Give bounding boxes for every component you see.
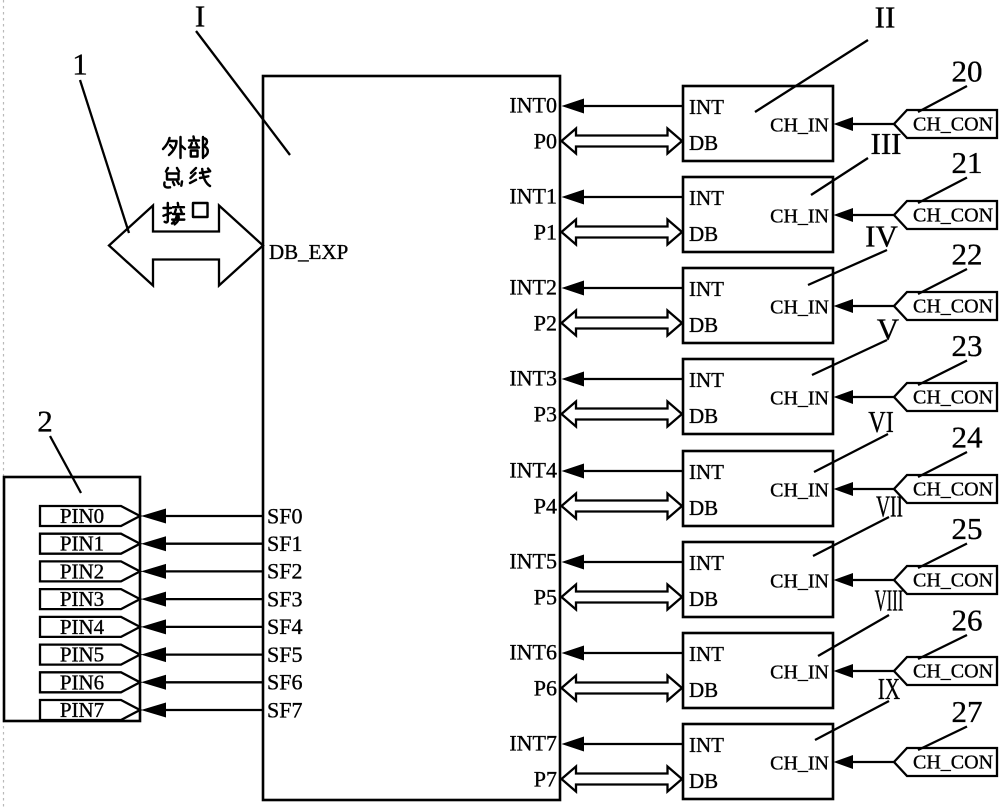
svg-text:CH_CON: CH_CON [913,114,993,136]
svg-text:SF3: SF3 [267,586,302,611]
svg-text:III: III [871,126,902,161]
svg-text:DB: DB [689,769,718,793]
svg-text:CH_IN: CH_IN [770,662,829,684]
bus P0 double arrow [562,129,683,154]
pin label SF0 [267,503,302,528]
label IV [865,218,898,253]
pin label P5 [534,584,557,609]
label 2 [37,403,53,438]
svg-text:P0: P0 [534,128,557,153]
leader line for label III [811,158,868,195]
svg-text:DB: DB [689,404,718,428]
block II : channel 0 [683,86,833,161]
wire CH_IN2 from CH_CON flag to channel block [834,299,895,313]
pin flag PIN0 [40,504,140,528]
wire SF7 from block I to PIN7 [141,703,263,718]
leader line for label I [196,31,290,155]
svg-text:INT: INT [689,277,724,301]
svg-text:INT: INT [689,95,724,119]
svg-text:CH_CON: CH_CON [913,479,993,501]
svg-text:INT4: INT4 [509,457,557,482]
block IX : channel 7 [683,724,833,799]
bus P2 double arrow [562,311,683,336]
bus P3 double arrow [562,402,683,427]
svg-text:21: 21 [952,145,983,180]
pin label DB_EXP [269,240,348,264]
label I [195,0,205,33]
pin label INT7 [509,730,557,755]
svg-text:INT2: INT2 [509,274,557,299]
leader line for label 23 [918,361,967,386]
wire INT5 from channel block to block I [562,555,684,570]
leader line for label 26 [918,635,967,659]
svg-text:SF5: SF5 [267,642,302,667]
svg-text:INT5: INT5 [509,548,557,573]
wire INT0 from channel block to block I [562,99,684,114]
pin flag PIN2 [40,559,140,583]
pin flag PIN1 [40,532,140,556]
wire CH_IN4 from CH_CON flag to channel block [834,482,895,496]
svg-text:SF6: SF6 [267,670,302,695]
svg-text:PIN5: PIN5 [60,643,104,667]
pin flag PIN5 [40,643,140,667]
wire INT6 from channel block to block I [562,646,684,661]
wire SF0 from block I to PIN0 [141,509,263,524]
pin label INT2 [509,274,557,299]
svg-text:CH_IN: CH_IN [770,480,829,502]
svg-text:INT: INT [689,733,724,757]
svg-text:INT: INT [689,460,724,484]
wire SF5 from block I to PIN5 [141,647,263,662]
svg-text:SF7: SF7 [267,697,302,722]
svg-text:INT: INT [689,642,724,666]
pin label SF1 [267,531,302,556]
wire INT7 from channel block to block I [562,737,684,752]
leader line for label 25 [918,544,967,569]
svg-text:INT0: INT0 [509,92,557,117]
leader line for label IX [815,701,889,740]
svg-text:PIN2: PIN2 [60,559,104,583]
pin flag PIN4 [40,615,140,639]
pin label P0 [534,128,557,153]
svg-text:23: 23 [952,328,983,363]
label VI [868,405,894,440]
label II [875,0,896,34]
bus P6 double arrow [562,676,683,701]
leader line for label 1 [80,80,129,233]
svg-text:P6: P6 [534,675,557,700]
svg-text:IX: IX [878,671,900,706]
pin label P6 [534,675,557,700]
svg-text:INT: INT [689,368,724,392]
svg-text:SF4: SF4 [267,614,302,639]
label 20 [952,53,983,88]
svg-text:INT6: INT6 [509,639,557,664]
pin label INT1 [509,183,557,208]
svg-text:PIN3: PIN3 [60,587,104,611]
wire SF6 from block I to PIN6 [141,675,263,690]
svg-text:20: 20 [952,53,983,88]
svg-text:CH_IN: CH_IN [770,115,829,137]
svg-text:CH_IN: CH_IN [770,753,829,775]
svg-text:DB: DB [689,587,718,611]
bus P4 double arrow [562,494,683,519]
block III : channel 1 [683,177,833,252]
svg-text:DB: DB [689,313,718,337]
pin flag PIN6 [40,670,140,694]
svg-text:26: 26 [952,602,983,637]
label 26 [952,602,983,637]
flag CH_CON (net 20) [894,110,997,138]
svg-text:INT7: INT7 [509,730,557,755]
label VII [876,489,903,524]
wire CH_IN3 from CH_CON flag to channel block [834,390,895,404]
wire CH_IN5 from CH_CON flag to channel block [834,573,895,587]
label VIII [875,584,904,618]
svg-text:II: II [875,0,896,34]
label 1 [72,46,88,81]
svg-text:DB: DB [689,496,718,520]
svg-text:P3: P3 [534,401,557,426]
pin label INT0 [509,92,557,117]
svg-text:I: I [195,0,205,33]
flag CH_CON (net 25) [894,566,997,594]
pin label INT4 [509,457,557,482]
external bus interface double arrow (component 1) [109,206,263,286]
bus P1 double arrow [562,220,683,245]
wire SF4 from block I to PIN4 [141,619,263,634]
svg-text:P7: P7 [534,766,557,791]
svg-text:SF0: SF0 [267,503,302,528]
svg-text:IV: IV [865,218,898,253]
wire INT3 from channel block to block I [562,372,684,387]
pin label SF3 [267,586,302,611]
bus P5 double arrow [562,585,683,610]
svg-text:DB: DB [689,678,718,702]
pin label P3 [534,401,557,426]
svg-text:22: 22 [952,236,983,271]
label IX [878,671,900,706]
wire CH_IN1 from CH_CON flag to channel block [834,208,895,222]
svg-text:CH_CON: CH_CON [913,296,993,318]
svg-text:INT: INT [689,186,724,210]
caption line 外部 [163,137,208,159]
pin label SF2 [267,559,302,584]
svg-text:PIN1: PIN1 [60,532,104,556]
pin label P1 [534,219,557,244]
svg-text:DB_EXP: DB_EXP [269,240,348,264]
svg-text:P5: P5 [534,584,557,609]
leader line for label 22 [918,269,967,294]
block VII : channel 5 [683,542,833,617]
svg-text:25: 25 [952,511,983,546]
svg-text:CH_CON: CH_CON [913,205,993,227]
leader line for label 21 [918,178,967,204]
svg-text:CH_CON: CH_CON [913,661,993,683]
block 2 : pin group box [4,477,140,721]
label 22 [952,236,983,271]
pin label INT6 [509,639,557,664]
pin flag PIN7 [40,698,140,722]
pin label SF5 [267,642,302,667]
leader line for label 2 [50,436,81,493]
svg-text:SF1: SF1 [267,531,302,556]
leader line for label IV [808,250,887,285]
svg-text:P2: P2 [534,310,557,335]
block V : channel 3 [683,359,833,434]
label 24 [952,419,984,454]
svg-text:CH_IN: CH_IN [770,297,829,319]
flag CH_CON (net 24) [894,475,997,503]
block IV : channel 2 [683,268,833,343]
pin label INT3 [509,365,557,390]
pin flag PIN3 [40,587,140,611]
wire SF2 from block I to PIN2 [141,564,263,579]
svg-text:INT3: INT3 [509,365,557,390]
block VI : channel 4 [683,451,833,526]
label 21 [952,145,983,180]
wire SF1 from block I to PIN1 [141,536,263,551]
leader line for label VI [814,434,888,472]
leader line for label V [812,340,887,375]
svg-text:PIN7: PIN7 [60,698,104,722]
svg-text:24: 24 [952,419,984,454]
svg-text:VI: VI [868,405,894,440]
svg-text:VII: VII [876,489,903,524]
pin label SF4 [267,614,302,639]
svg-text:2: 2 [37,403,53,438]
flag CH_CON (net 26) [894,657,997,685]
leader line for label 20 [918,86,967,112]
wire CH_IN6 from CH_CON flag to channel block [834,664,895,678]
leader line for label VIII [818,615,889,656]
pin label P4 [534,493,557,518]
svg-text:CH_IN: CH_IN [770,571,829,593]
svg-text:SF2: SF2 [267,559,302,584]
pin label INT5 [509,548,557,573]
wire INT1 from channel block to block I [562,190,684,205]
leader line for label II [755,40,868,112]
leader line for label VII [813,517,889,556]
svg-text:INT: INT [689,551,724,575]
pin label SF6 [267,670,302,695]
label 27 [952,694,983,729]
bus P7 double arrow [562,767,683,792]
flag CH_CON (net 27) [894,748,997,776]
flag CH_CON (net 23) [894,383,997,411]
svg-text:DB: DB [689,131,718,155]
label 25 [952,511,983,546]
pin label P2 [534,310,557,335]
block VIII : channel 6 [683,633,833,708]
flag CH_CON (net 21) [894,201,997,229]
svg-text:CH_CON: CH_CON [913,752,993,774]
svg-text:P1: P1 [534,219,557,244]
svg-text:CH_CON: CH_CON [913,387,993,409]
leader line for label 27 [918,727,967,751]
svg-text:CH_CON: CH_CON [913,570,993,592]
wire INT4 from channel block to block I [562,464,684,479]
svg-text:PIN6: PIN6 [60,670,104,694]
svg-text:1: 1 [72,46,88,81]
svg-text:CH_IN: CH_IN [770,206,829,228]
label III [871,126,902,161]
svg-text:V: V [877,311,900,346]
wire CH_IN7 from CH_CON flag to channel block [834,755,895,769]
svg-text:PIN4: PIN4 [60,615,105,639]
pin label P7 [534,766,557,791]
flag CH_CON (net 22) [894,292,997,320]
label 23 [952,328,983,363]
leader line for label 24 [918,452,967,477]
svg-text:PIN0: PIN0 [60,504,104,528]
svg-text:27: 27 [952,694,983,729]
svg-text:P4: P4 [534,493,557,518]
svg-text:INT1: INT1 [509,183,557,208]
svg-text:VIII: VIII [875,584,904,618]
block I : bus expander main box [263,76,560,800]
wire CH_IN0 from CH_CON flag to channel block [834,117,895,131]
label V [877,311,900,346]
svg-text:CH_IN: CH_IN [770,388,829,410]
svg-text:DB: DB [689,222,718,246]
wire INT2 from channel block to block I [562,281,684,296]
pin label SF7 [267,697,302,722]
wire SF3 from block I to PIN3 [141,592,263,607]
caption line 接口 [164,203,208,224]
caption line 总线 [164,168,210,188]
